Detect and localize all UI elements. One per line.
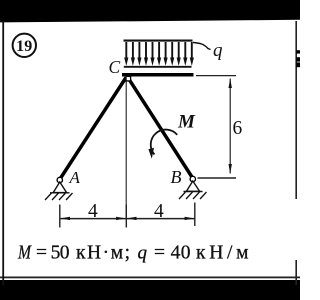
svg-text:4: 4 (88, 201, 98, 222)
svg-text:кН/м: кН/м (196, 243, 249, 264)
svg-text:C: C (109, 57, 121, 77)
svg-text:M: M (17, 241, 32, 263)
svg-text:19: 19 (16, 38, 32, 55)
svg-text:B: B (171, 167, 182, 187)
svg-text:6: 6 (233, 118, 243, 139)
svg-text:q: q (213, 40, 223, 61)
svg-text:M: M (177, 111, 196, 132)
svg-text:A: A (69, 168, 81, 187)
svg-text:= 50: = 50 (36, 243, 70, 264)
svg-text:q: q (138, 243, 148, 264)
svg-text:4: 4 (154, 201, 164, 222)
svg-text:= 40: = 40 (154, 243, 191, 264)
svg-text:кН·м;: кН·м; (76, 243, 130, 264)
